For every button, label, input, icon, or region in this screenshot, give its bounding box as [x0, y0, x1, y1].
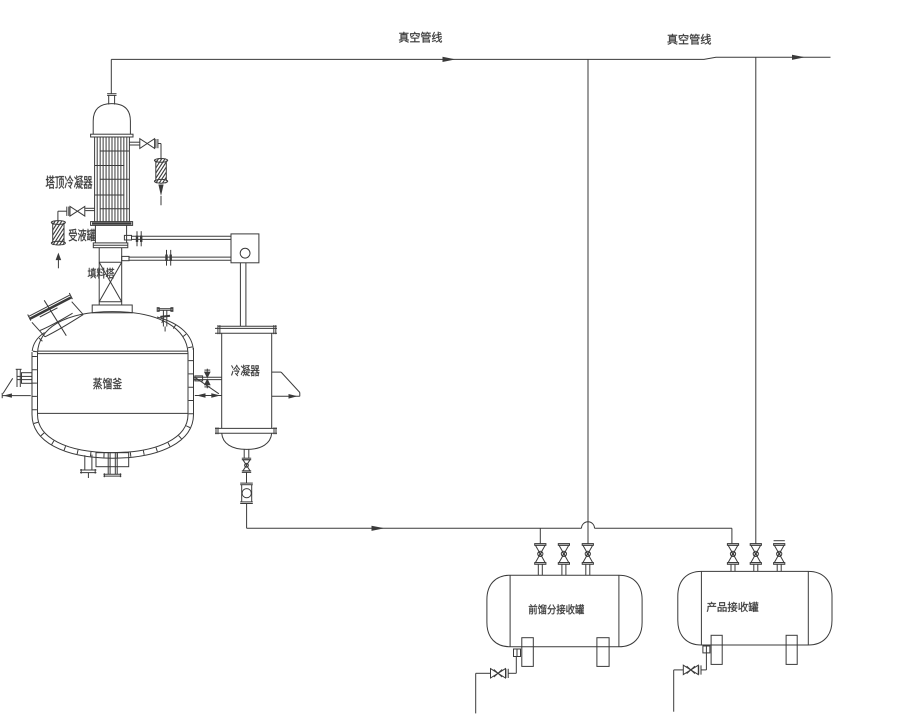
kettle jacket top closure: [38, 351, 188, 354]
flange pair on lower arm: [167, 250, 171, 266]
pipe: tank2 drain drop: [673, 670, 675, 712]
valve: tank2 drain: [674, 665, 701, 674]
pipe: vacuum drop to tank2 valve: [755, 57, 757, 543]
flow arrow on vacuum header (right): [792, 55, 805, 60]
pipe: column to sightglass box: [129, 257, 231, 260]
leg from box to condenser: [240, 263, 246, 327]
pipe: distillate header: [247, 522, 732, 529]
pipe: vacuum header main line: [111, 57, 830, 59]
packed column bottom flange plate: [92, 305, 132, 313]
pipe: kettle to condenser: [194, 377, 222, 379]
bracket: condenser right: [272, 372, 300, 399]
label 受液罐: [69, 229, 96, 242]
label 产品接收罐: [707, 602, 759, 612]
pipe: drop to distillate header: [246, 504, 248, 529]
valve: kettle vapor line: [204, 369, 211, 389]
nozzle stub on kettle right: [195, 376, 203, 381]
overhead condenser tube bundle: [97, 137, 127, 222]
pipe: outlet drop: [246, 472, 248, 483]
tank2 leg left: [711, 635, 722, 664]
valve: tank1 drain: [476, 669, 509, 678]
bracket: kettle left: [2, 378, 31, 398]
condenser shell: [222, 333, 272, 428]
label 冷凝器: [231, 365, 259, 376]
valve: condenser upper right: [129, 139, 161, 161]
receiver pot bottom flange: [93, 243, 128, 248]
valve: tank2 nozzle1: [727, 544, 738, 572]
condenser top flange plate: [215, 325, 277, 334]
bracket: condenser left: [195, 378, 222, 398]
flow arrow on distillate header: [372, 526, 385, 531]
flow arrow on vacuum header (left): [443, 57, 456, 62]
overhead condenser bottom tubesheet: [91, 222, 133, 226]
packed column shell: [99, 248, 122, 305]
label 真空管线 (left): [399, 32, 442, 43]
pipe: vacuum drop to tank1 valve: [587, 59, 589, 543]
condenser dished bottom: [222, 433, 272, 449]
flex hose lower left (hatched): [51, 207, 65, 260]
kettle manway inclined nozzle: [28, 293, 83, 337]
label 填料塔: [88, 268, 115, 279]
valve: tank2 nozzle2: [750, 544, 761, 572]
pipe: branch to tank1 valve1: [539, 528, 541, 543]
tank2 drain nozzle: [703, 646, 710, 653]
sight glass on outlet: [240, 483, 253, 503]
pipe: header turndown to tank2 valve1: [731, 528, 733, 543]
sightglass circle: [240, 248, 250, 258]
tank2 leg right: [786, 635, 797, 664]
flex hose upper right (hatched): [154, 147, 167, 199]
kettle jacket ticks: [35, 320, 191, 456]
tank1 leg right: [597, 638, 609, 667]
kettle bottom left nozzle: [80, 455, 96, 478]
label 蒸馏釜: [93, 378, 122, 390]
packed bed with cross: [99, 262, 122, 302]
label 真空管线 (right): [668, 34, 712, 45]
valve: tank1 nozzle2: [558, 544, 569, 576]
flow arrow down (upper right): [158, 185, 163, 206]
kettle bottom manway: [96, 453, 129, 478]
tank1 leg left: [522, 638, 534, 667]
valve: tank1 nozzle3: [582, 544, 593, 576]
kettle jacket: [32, 348, 194, 458]
pipe: condenser vent riser: [110, 59, 112, 93]
tank1 shell: [487, 575, 642, 647]
flange pair on upper arm: [137, 231, 141, 246]
sightglass box: [231, 234, 259, 263]
valve: tank1 nozzle1: [535, 544, 546, 576]
kettle liquid line: [38, 412, 189, 414]
tank1 drain nozzle: [514, 649, 521, 657]
overhead condenser shell: [95, 137, 130, 222]
valve: condenser lower left: [58, 206, 95, 222]
valve: tank2 nozzle3: [774, 541, 785, 572]
kettle vessel shell: [38, 312, 189, 453]
overhead condenser dome: [93, 104, 130, 135]
overhead condenser top flange: [91, 134, 133, 137]
label 塔顶冷凝器: [46, 176, 93, 189]
condenser bottom flange: [215, 427, 277, 434]
condenser outlet nozzle: [244, 449, 249, 458]
tank2 shell: [678, 571, 832, 645]
nozzle stub on packed column: [122, 256, 129, 260]
pipe: tank1 drain drop: [475, 673, 477, 713]
nozzle stub on receiver pot: [124, 235, 131, 240]
flow arrow up (lower left): [56, 253, 62, 269]
pipe: pot to sightglass box: [132, 236, 232, 239]
label 前馏分接收罐: [529, 604, 584, 614]
overhead condenser top nozzle: [107, 94, 116, 105]
valve: condenser outlet: [242, 458, 251, 472]
pipe: tank2 drain: [701, 653, 706, 670]
kettle top right nozzle: [157, 308, 173, 332]
kettle left nozzle: [16, 369, 32, 387]
kettle jacket dome arc right: [157, 317, 193, 350]
pipe: tank1 drain: [508, 657, 516, 674]
receiver pot shell: [95, 225, 126, 243]
overhead condenser baffles: [95, 151, 130, 209]
kettle jacket dome arc left: [32, 333, 46, 353]
